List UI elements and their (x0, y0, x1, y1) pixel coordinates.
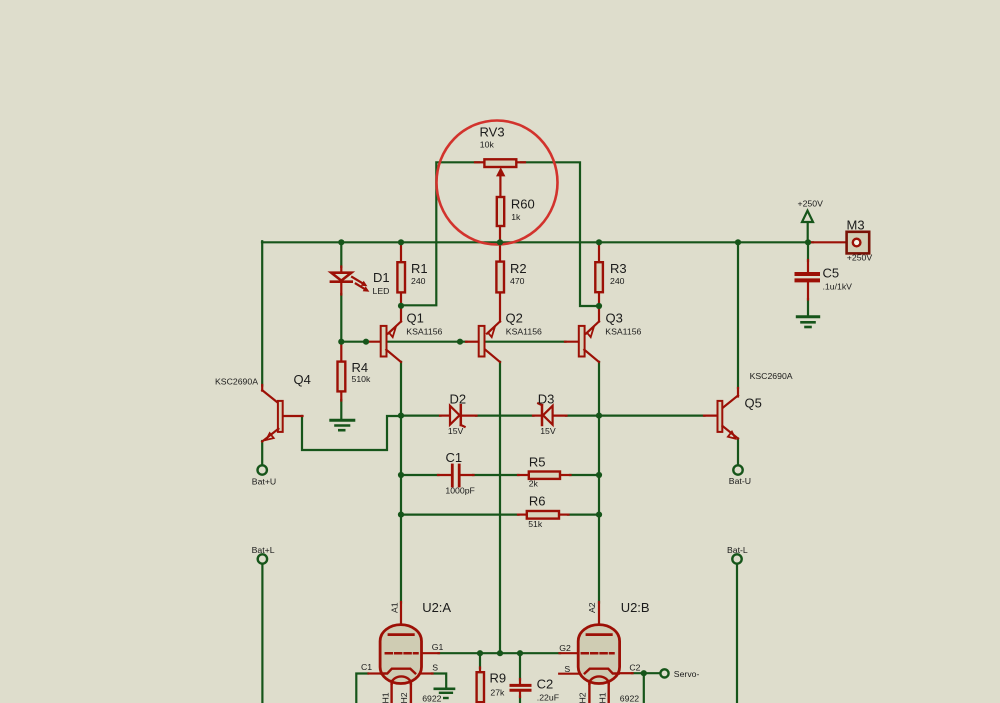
wire R6 row segments (401, 513, 519, 515)
wire Q3 pin to tube B anode (598, 602, 600, 634)
node dot bus x599 (596, 239, 602, 245)
node dot bus x500 (497, 239, 503, 245)
transistor Q2 (479, 322, 500, 363)
wire tube A G1 pin (422, 652, 440, 654)
node dot zener row x599 (596, 413, 602, 419)
RV3 wiper arrow (496, 167, 505, 176)
node dot R1 bottom (398, 303, 404, 309)
D1 LED arrow 2 (356, 284, 365, 290)
wire Q1 pin to tube A anode (400, 602, 402, 634)
resistor R6 (527, 511, 559, 519)
wire grid to R9 (479, 653, 481, 668)
svg-text:R3: R3 (610, 261, 627, 276)
node dot zener row x401 (398, 413, 404, 419)
svg-text:+250V: +250V (847, 252, 873, 262)
wire C1 R5 row segments (401, 474, 439, 476)
tube U2:A cathode (381, 669, 415, 674)
svg-text:1000pF: 1000pF (445, 486, 474, 496)
tube U2:B heater (589, 676, 608, 703)
wire left drop to Q4 collector (261, 241, 263, 385)
wire R4 pins (340, 342, 342, 362)
svg-text:S: S (564, 664, 570, 674)
wire R3 pins (598, 243, 600, 263)
svg-text:6922: 6922 (620, 694, 639, 703)
terminal Bat-L (732, 554, 741, 563)
node dot base bus x341 (338, 339, 344, 345)
wire grid bus G1-G2 (439, 652, 561, 654)
svg-text:1k: 1k (511, 212, 521, 222)
svg-text:KSC2690A: KSC2690A (215, 376, 258, 386)
svg-text:Bat+L: Bat+L (252, 545, 275, 555)
wire R1 pins (400, 243, 402, 263)
wire base bus Q2-Q3 segment (486, 341, 566, 343)
svg-text:C5: C5 (823, 266, 840, 281)
wire base bus Q1-Q2 segment (387, 341, 467, 343)
svg-text:C2: C2 (537, 676, 554, 691)
ground below R4 (331, 420, 354, 430)
wire base pins Q1 Q2 Q3 (366, 341, 382, 343)
wire tube A cathode out and down (356, 674, 368, 703)
zener diode D2 (450, 405, 465, 427)
node dot bus x341 (338, 239, 344, 245)
capacitor C5 (797, 274, 819, 280)
svg-text:Bat-L: Bat-L (727, 545, 748, 555)
wire tube A cathode pin (369, 672, 382, 674)
wire C5 pins (807, 260, 809, 273)
wire Q4 emitter to Bat+U (261, 441, 263, 465)
wire below C2 (519, 697, 521, 703)
svg-text:KSC2690A: KSC2690A (750, 371, 793, 381)
svg-text:G1: G1 (432, 642, 444, 652)
resistor R4 (338, 362, 346, 392)
wire Q5 emitter to Bat-U (737, 439, 739, 466)
resistor R9 (477, 672, 484, 702)
svg-text:27k: 27k (490, 688, 505, 698)
wire R4 to ground (340, 400, 342, 418)
wire RV3 left to R1 bottom node (401, 162, 479, 305)
node dot R6 row x599 (596, 511, 602, 517)
wire grid to C2 (519, 653, 521, 679)
transistor Q3 (579, 322, 599, 363)
svg-text:240: 240 (411, 276, 426, 286)
node dot base bus x460 (457, 339, 463, 345)
svg-text:Bat-U: Bat-U (729, 476, 751, 486)
annotation red circle around RV3/R60 (437, 121, 558, 245)
resistor R1 (397, 262, 405, 292)
wire bus to C5 (807, 242, 809, 261)
wire Q4 base pin (283, 415, 303, 417)
node dot base bus x366 (363, 339, 369, 345)
svg-text:S: S (432, 662, 438, 672)
svg-text:+250V: +250V (798, 198, 824, 208)
svg-text:C2: C2 (629, 662, 640, 672)
wire Q1 collector vertical (400, 362, 402, 603)
wire R9 pin (479, 668, 481, 673)
svg-text:Q5: Q5 (745, 396, 762, 411)
wire Q4 base loop (302, 416, 402, 450)
wire zener row pins (440, 415, 451, 417)
tube U2:B grid dashed (582, 652, 614, 655)
node dot grid x480 (477, 650, 483, 656)
svg-text:Q2: Q2 (506, 311, 523, 326)
transistor Q5 (718, 388, 739, 439)
svg-text:.22uF: .22uF (537, 693, 559, 703)
ground below C5 (797, 317, 818, 327)
wire RV3 pin stubs (475, 161, 485, 163)
svg-text:A2: A2 (587, 602, 597, 613)
wire C5 to ground (807, 299, 809, 316)
wire RV3 right to Q3 emitter node (521, 162, 599, 306)
power arrow +250V (802, 211, 813, 222)
wire tube B G2 pin (560, 652, 579, 654)
svg-text:Q1: Q1 (407, 311, 424, 326)
resistor R2 (496, 262, 504, 293)
wire D1 pins (340, 267, 342, 274)
terminal Bat+U (258, 465, 267, 474)
wire C1 pins (438, 474, 452, 476)
svg-text:R5: R5 (529, 454, 546, 469)
node dot R6 row x401 (398, 511, 404, 517)
wire +250V arrow stem (807, 223, 809, 243)
svg-text:A1: A1 (389, 602, 399, 613)
ground below tube A S pin (435, 689, 454, 698)
svg-text:C1: C1 (446, 450, 463, 465)
resistor R3 (595, 262, 603, 292)
wire Bat-L down (736, 564, 738, 703)
svg-text:Q4: Q4 (294, 372, 311, 387)
wire Q3 collector vertical (598, 362, 600, 603)
svg-text:240: 240 (610, 276, 625, 286)
tube U2:A anode plate (389, 633, 413, 636)
svg-text:C1: C1 (361, 662, 372, 672)
wire tube A S to ground (432, 674, 446, 689)
svg-text:G2: G2 (559, 643, 571, 653)
node dot bus x738 (735, 239, 741, 245)
svg-text:R9: R9 (490, 671, 507, 686)
terminal Bat+L (258, 554, 267, 563)
svg-text:LED: LED (373, 286, 390, 296)
svg-text:KSA1156: KSA1156 (506, 326, 542, 336)
svg-text:U2:B: U2:B (621, 600, 650, 615)
wire M3 pin (812, 241, 847, 243)
potentiometer RV3 (484, 159, 516, 176)
wire tube B cathode pin (620, 672, 633, 674)
svg-text:H1: H1 (380, 692, 390, 703)
wire Q5 collector vertical (737, 242, 739, 388)
svg-text:2k: 2k (529, 479, 539, 489)
svg-text:Servo-: Servo- (674, 669, 700, 679)
svg-text:KSA1156: KSA1156 (605, 326, 641, 336)
wire R2 pins (499, 243, 501, 262)
node dot bus x808 (805, 239, 811, 245)
resistor R60 (497, 197, 504, 226)
tube U2:A grid dashed (386, 652, 418, 655)
node dot C1 row x599 (596, 472, 602, 478)
terminal Servo- (660, 669, 668, 677)
svg-text:51k: 51k (528, 519, 543, 529)
capacitor C1 (452, 465, 459, 486)
node dot servo (641, 670, 647, 676)
svg-text:D3: D3 (538, 392, 555, 407)
svg-text:H1: H1 (597, 692, 607, 703)
svg-text:H2: H2 (399, 692, 409, 703)
LED D1 (331, 273, 370, 292)
svg-text:470: 470 (510, 276, 525, 286)
wire main +250V bus y=242 (262, 241, 813, 243)
svg-text:.1u/1kV: .1u/1kV (823, 281, 853, 291)
wire R60 pins (499, 176, 501, 197)
svg-text:510k: 510k (352, 374, 371, 384)
wire Q2 collector vertical (499, 362, 501, 653)
wire tube B cathode node down (643, 673, 645, 703)
tube U2:B envelope (578, 625, 619, 684)
node dot R3 bottom (596, 303, 602, 309)
wire tube B S pin stub (559, 673, 578, 675)
node dot grid x520 (517, 650, 523, 656)
wire Bat+L down (261, 564, 263, 703)
svg-text:U2:A: U2:A (422, 600, 451, 615)
svg-text:KSA1156: KSA1156 (406, 326, 442, 336)
svg-text:15V: 15V (540, 426, 556, 436)
wire zener row segments (401, 415, 441, 417)
svg-text:10k: 10k (480, 140, 495, 150)
pad M3 (847, 232, 870, 254)
tube U2:A heater (392, 676, 411, 703)
svg-text:6922: 6922 (422, 694, 441, 703)
wire base bus left segment (341, 341, 366, 343)
tube U2:B anode plate (587, 633, 611, 636)
svg-text:RV3: RV3 (480, 125, 505, 140)
svg-text:Bat+U: Bat+U (252, 477, 276, 487)
wire R5 pins (518, 474, 529, 476)
node dot grid x500 (497, 650, 503, 656)
tube U2:A envelope (380, 625, 421, 684)
D1 LED arrow 1 (352, 277, 362, 283)
svg-text:M3: M3 (847, 218, 865, 233)
svg-text:R4: R4 (352, 360, 369, 375)
node dot bus x401 (398, 239, 404, 245)
wire D1 anode drop (340, 242, 342, 267)
tube U2:B cathode (585, 669, 619, 674)
capacitor C2 (511, 685, 530, 690)
wire R6 pins (518, 513, 527, 515)
svg-text:Q3: Q3 (606, 311, 623, 326)
svg-text:D2: D2 (450, 392, 467, 407)
wire D1 cathode to base bus (340, 294, 342, 343)
svg-text:15V: 15V (448, 426, 464, 436)
svg-text:D1: D1 (373, 270, 390, 285)
node dot C1 row x401 (398, 472, 404, 478)
wire tube B cathode node to Servo- (632, 672, 660, 674)
svg-text:H2: H2 (578, 692, 588, 703)
transistor Q1 (381, 306, 401, 362)
svg-text:R1: R1 (411, 261, 428, 276)
resistor R5 (529, 472, 560, 479)
zener diode D3 (538, 403, 552, 425)
transistor Q4 (262, 385, 282, 442)
wire C2 pins (519, 679, 521, 684)
svg-text:R6: R6 (529, 493, 546, 508)
terminal Bat-U (733, 465, 742, 474)
wire tube A S pin (421, 672, 432, 674)
svg-text:R2: R2 (510, 261, 527, 276)
red pin stubs group (283, 162, 847, 697)
svg-text:R60: R60 (511, 196, 535, 211)
